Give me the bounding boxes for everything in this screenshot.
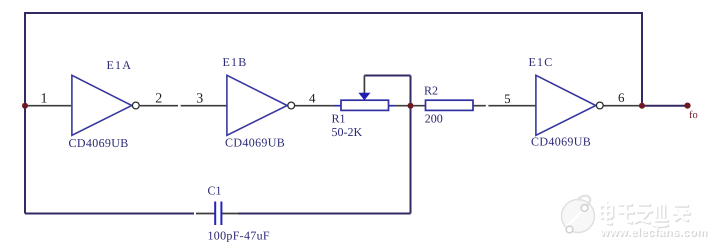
watermark logo elecfans — [562, 196, 595, 233]
svg-text:E1C: E1C — [529, 55, 554, 69]
wire: pin 1 lead into E1A — [25, 105, 71, 107]
junction node R1/R2/C1 — [408, 103, 414, 109]
wire: output node to fo terminal — [642, 105, 688, 107]
svg-text:1: 1 — [41, 91, 48, 106]
inverter E1A bubble — [132, 102, 139, 109]
svg-text:CD4069UB: CD4069UB — [225, 135, 285, 149]
svg-text:fo: fo — [689, 110, 698, 121]
wire: C1 left lead — [196, 213, 215, 215]
terminal node fo — [684, 103, 690, 109]
svg-text:www.elecfans.com: www.elecfans.com — [599, 227, 707, 239]
wire: bottom right segment C1 to vertical — [238, 213, 411, 215]
resistor R2 body — [426, 100, 474, 110]
junction node output — [639, 103, 645, 109]
wire: R1 wiper stem — [363, 76, 365, 94]
wire: pin 4 lead from E1B to R1 — [295, 105, 335, 107]
watermark chinese characters 电子发烧友 (shadow) — [601, 202, 691, 227]
svg-text:2: 2 — [155, 91, 162, 106]
svg-text:5: 5 — [504, 91, 511, 106]
svg-text:200: 200 — [425, 112, 443, 126]
watermark chinese characters 电子发烧友 (white face) — [600, 201, 690, 226]
wire: bottom left segment to C1 — [25, 213, 194, 215]
potentiometer R1 wiper arrow — [358, 93, 370, 101]
wire: R1 left blue stub — [335, 105, 342, 107]
wire: C1 right lead — [221, 213, 238, 215]
wire: pin 6 lead from E1C to node — [603, 105, 642, 107]
svg-text:R2: R2 — [424, 83, 438, 97]
capacitor C1 plates — [215, 202, 221, 226]
svg-text:C1: C1 — [208, 184, 222, 198]
wire: pin 2 lead out of E1A — [140, 105, 178, 107]
svg-text:4: 4 — [309, 91, 316, 106]
inverter E1B triangle — [227, 75, 287, 135]
junction node at input (pin1) — [22, 103, 28, 109]
inverter E1B bubble — [288, 102, 295, 109]
inverter E1A triangle — [72, 75, 132, 135]
svg-text:R1: R1 — [332, 112, 346, 126]
svg-text:CD4069UB: CD4069UB — [531, 135, 591, 149]
svg-text:100pF-47uF: 100pF-47uF — [208, 229, 270, 243]
svg-text:E1A: E1A — [107, 58, 133, 72]
svg-text:CD4069UB: CD4069UB — [69, 136, 129, 150]
svg-text:3: 3 — [196, 91, 203, 106]
wire: R1 right blue stub — [389, 105, 395, 107]
svg-text:E1B: E1B — [223, 55, 248, 69]
wire: pin 5 lead from R2 (with break) — [473, 105, 536, 107]
svg-text:6: 6 — [618, 90, 625, 105]
wire: feedback loop (left vertical, top, right vertical) — [25, 13, 642, 214]
potentiometer R1 body — [341, 100, 389, 110]
wire: R1 right to R2 through junction — [394, 105, 426, 107]
inverter E1C bubble — [596, 102, 603, 109]
svg-text:50-2K: 50-2K — [332, 125, 363, 139]
wire: pin 3 lead into E1B — [181, 105, 227, 107]
wire: wiper loop horizontal — [364, 75, 410, 77]
inverter E1C triangle — [536, 75, 596, 135]
wire: vertical at x=410 from wiper loop down to bottom — [410, 76, 412, 214]
